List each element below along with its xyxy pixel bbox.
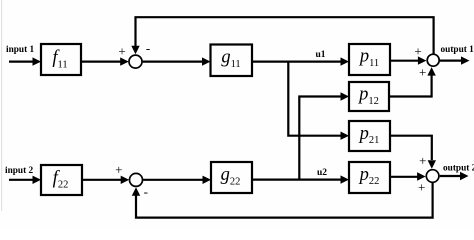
svg-text:+: + (419, 153, 426, 168)
svg-text:-: - (144, 184, 148, 199)
wire p12 to O1 bottom (389, 70, 432, 97)
block p22 (349, 162, 390, 193)
svg-text:+: + (118, 44, 125, 59)
svg-text:+: + (419, 65, 426, 80)
block f22 (41, 165, 82, 195)
wire f22 to sum S2 (82, 179, 123, 181)
wire p22 to output sum O2 (390, 176, 419, 178)
svg-text:-: - (146, 41, 150, 56)
wire top feedback loop O1 to S1 (136, 17, 434, 53)
summing junction S1 (129, 55, 142, 68)
summing junction S2 (130, 173, 143, 186)
wire input 2 arrow (9, 179, 34, 181)
svg-text:+: + (418, 180, 425, 195)
wire O2 to output 2 (440, 175, 461, 177)
wire g11 to p11 (u1 line) (252, 60, 342, 62)
block g11 (211, 45, 253, 77)
summing junction O2 (426, 170, 439, 183)
block p21 (349, 121, 390, 151)
wire g22 to p22 (u2 line) (252, 179, 342, 181)
scan edge artifact (1, 0, 2, 211)
wire bottom feedback loop O2 to S2 (136, 183, 433, 218)
svg-text:input 2: input 2 (5, 166, 34, 176)
block p12 (349, 82, 389, 111)
block p11 (349, 44, 390, 75)
wire u2 branch up to p12 (299, 97, 342, 180)
wire p11 to output sum O1 (390, 60, 419, 62)
wire input 1 arrow (9, 60, 34, 62)
block g22 (211, 162, 252, 193)
block f11 (41, 44, 81, 75)
svg-text:output 1: output 1 (441, 45, 474, 55)
summing junction O1 (427, 54, 439, 66)
svg-text:u2: u2 (317, 168, 327, 178)
svg-text:+: + (414, 44, 421, 59)
svg-text:output 2: output 2 (443, 163, 474, 173)
wire S1 to g11 (143, 60, 204, 62)
svg-text:u1: u1 (316, 50, 326, 60)
wire O1 to output 1 (440, 59, 462, 61)
svg-text:input 1: input 1 (6, 45, 35, 55)
wire S2 to g22 (143, 179, 204, 181)
wire f11 to sum S1 (81, 60, 122, 62)
svg-text:+: + (115, 162, 122, 177)
wire p21 to O2 top (390, 136, 432, 160)
wire u1 branch down to p21 (288, 62, 342, 136)
